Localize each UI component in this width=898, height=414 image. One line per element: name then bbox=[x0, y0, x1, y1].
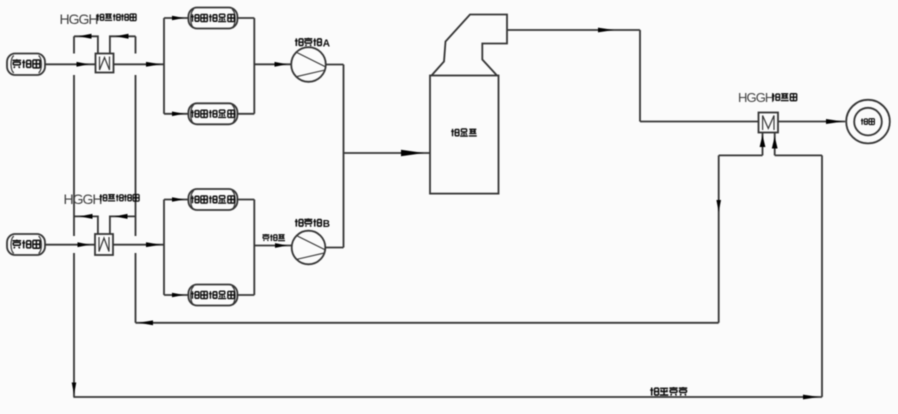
wire: medium return header (y=322.8, arrow left) bbox=[136, 320, 719, 325]
svg-text:B: B bbox=[323, 219, 330, 230]
wire: manifold to absorber inlet bbox=[344, 150, 431, 157]
wire: preheater to cooler (top main flue line) bbox=[45, 62, 96, 67]
label: 空预器 (bottom) bbox=[12, 240, 39, 249]
label: 吸收塔 bbox=[451, 129, 477, 136]
wire: flue drop (vertical x=640) bbox=[639, 30, 641, 122]
svg-text:HGGH: HGGH bbox=[60, 11, 98, 27]
wire: cooler to ESP split junction (top) bbox=[114, 62, 165, 67]
wire: absorber outlet to heater (horizontal y=30) bbox=[507, 28, 640, 33]
label: 静电除尘器 (ESP2) bbox=[191, 110, 234, 118]
wire: heater bottom header left bbox=[719, 154, 763, 156]
svg-text:HGGH: HGGH bbox=[64, 191, 102, 207]
heat exchanger HX2: HGGH flue gas cooler (bottom) bbox=[95, 234, 113, 255]
wire: circulating medium return line (left vertical x=74) bbox=[72, 36, 77, 397]
electrostatic precipitator ESP3 静电除尘器 (bottom group, upper) bbox=[188, 189, 254, 210]
wire: flue to heater inlet bbox=[640, 121, 759, 123]
label: HGGH烟气冷却器 (bottom) bbox=[64, 191, 140, 207]
wire: heater outlet downcomer (vertical x=718.7, arrow down) bbox=[716, 155, 721, 322]
electrostatic precipitator ESP4 静电除尘器 (bottom group, lower) bbox=[188, 285, 254, 306]
wire: fan discharge manifold (vertical x=343.5) bbox=[343, 65, 345, 248]
wire: cooler HX1 medium inlet staple (from right supply line) bbox=[110, 34, 136, 54]
air preheater AP2 (bottom) 空预器 bbox=[7, 234, 45, 255]
wire: heater outlet to stack bbox=[778, 119, 845, 124]
wire: fan A discharge bbox=[326, 64, 344, 66]
label: HGGH加热器 (heater) bbox=[738, 90, 797, 105]
absorber tower T1 吸收塔 bbox=[430, 15, 507, 194]
wire: bottom branch to ESP4 bbox=[164, 293, 188, 298]
wire: fan B discharge bbox=[325, 247, 343, 249]
wire: cooler to ESP split junction (bottom) bbox=[113, 242, 164, 247]
wire: cooler HX2 medium outlet staple (to left return line) bbox=[74, 214, 98, 234]
air preheater AP1 (top) 空预器 bbox=[7, 54, 45, 76]
fan U1: induced draft fan A 引风机A bbox=[291, 47, 326, 82]
wire: top branch to ESP3 bbox=[164, 197, 188, 202]
fan U2: induced draft fan B 引风机B bbox=[292, 231, 326, 265]
label: 循环介质 bbox=[650, 387, 687, 396]
label: 引风机A bbox=[295, 38, 321, 46]
wire: circulating medium supply line (right vertical x=135.5) bbox=[135, 36, 137, 323]
wire: preheater to cooler (bottom main flue line) bbox=[45, 242, 95, 247]
label: 静电除尘器 (ESP4) bbox=[191, 291, 234, 299]
node: ESP split header (top group) bbox=[163, 18, 165, 114]
wire: cooler HX2 medium inlet staple (from right supply line) bbox=[110, 214, 136, 234]
wire: heater bottom header right bbox=[775, 154, 822, 156]
wire: cooler HX1 hot-medium outlet staple (to left return line) bbox=[74, 34, 98, 54]
wire: heater supply riser (vertical x=822) bbox=[821, 155, 823, 397]
wire: heater medium stub left (arrow up) bbox=[760, 133, 766, 156]
label: 静电除尘器 (ESP3) bbox=[191, 196, 234, 204]
label: 空预器 (top) bbox=[12, 59, 39, 68]
electrostatic precipitator ESP1 静电除尘器 (top group, upper) bbox=[188, 8, 254, 29]
label: 引风机B bbox=[295, 218, 321, 226]
node: ESP merge header (top group) bbox=[253, 18, 255, 114]
svg-text:HGGH: HGGH bbox=[738, 90, 774, 105]
wire: heater medium stub right (arrow up) bbox=[772, 133, 778, 156]
wire: top branch to ESP1 bbox=[164, 16, 188, 21]
label: 静电除尘器 (ESP1) bbox=[191, 14, 234, 22]
label: 烟囱 bbox=[861, 118, 874, 124]
node: ESP split header (bottom group) bbox=[163, 200, 165, 296]
wire: ESP merge to fan A bbox=[254, 62, 291, 67]
node: ESP merge header (bottom group) bbox=[253, 200, 255, 296]
electrostatic precipitator ESP2 静电除尘器 (top group, lower) bbox=[188, 103, 254, 124]
wire: circulating medium bottom line (y=397, arrow right) bbox=[73, 395, 822, 400]
label: 原烟气 bbox=[262, 234, 285, 241]
wire: ESP merge to fan B (原烟气 line) bbox=[254, 243, 291, 248]
svg-text:A: A bbox=[323, 39, 330, 50]
wire: bottom branch to ESP2 bbox=[164, 112, 188, 117]
heat exchanger HX3: HGGH heater 加热器 bbox=[759, 113, 779, 133]
label: HGGH烟气冷却器 (top) bbox=[60, 11, 137, 27]
stack/chimney 烟囱 bbox=[846, 100, 890, 144]
heat exchanger HX1: HGGH flue gas cooler (top) bbox=[96, 54, 114, 73]
